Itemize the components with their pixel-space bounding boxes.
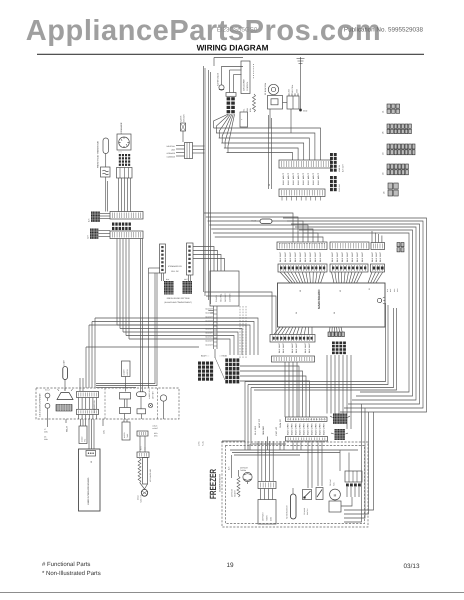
svg-text:SWITCH: SWITCH [306, 508, 309, 515]
wires into dispenser board [80, 378, 83, 391]
dispenser switches [45, 389, 50, 420]
svg-text:BLK ORN: BLK ORN [287, 423, 290, 435]
svg-text:COMMON: COMMON [229, 293, 232, 302]
svg-text:USER INTERFACE BOARD: USER INTERFACE BOARD [87, 477, 90, 505]
svg-text:GRN: GRN [103, 429, 106, 434]
wires board outputs left [274, 327, 312, 335]
svg-text:BLK WHT: BLK WHT [304, 342, 307, 353]
legend connector J5 [382, 124, 412, 134]
svg-text:BLK/WHT: BLK/WHT [205, 336, 213, 339]
svg-text:FRESH FOOD SECTION: FRESH FOOD SECTION [167, 297, 190, 300]
svg-text:BLK WHT: BLK WHT [304, 251, 307, 262]
damper wire labels [243, 64, 254, 112]
wires icemaker fill [162, 247, 225, 282]
svg-text:BLK: BLK [88, 218, 91, 222]
svg-text:WHT: WHT [87, 234, 90, 239]
svg-text:FAN: FAN [333, 482, 336, 486]
svg-text:LINE: LINE [288, 88, 291, 93]
thermal fuse F1 [251, 219, 272, 223]
wires into freezer [258, 437, 322, 489]
svg-text:BLK/WHT: BLK/WHT [205, 344, 213, 347]
defrost connector [258, 482, 276, 500]
wires middle distribution harness [86, 239, 258, 389]
main control board U1 [278, 283, 386, 327]
ground stub wire [103, 419, 106, 434]
svg-text:YEL: YEL [243, 109, 246, 112]
wires icemaker to harness [119, 178, 131, 212]
fresh food harness connector P2 [110, 231, 143, 239]
svg-text:— HEAD: — HEAD [219, 355, 228, 358]
svg-text:PLUG: PLUG [202, 441, 205, 446]
wires solenoid feed [214, 58, 243, 93]
machine compartment plug A [330, 414, 350, 425]
svg-text:FRESH FOOD THERMISTOR: FRESH FOOD THERMISTOR [97, 141, 100, 168]
icemaker connector [117, 168, 133, 179]
header: model number [217, 27, 258, 34]
svg-text:FILL CK: FILL CK [171, 270, 179, 273]
svg-text:BLK WHT: BLK WHT [336, 251, 339, 262]
board header J2 [278, 264, 327, 272]
dispenser board connectors [77, 392, 99, 420]
svg-text:NEUTRAL: NEUTRAL [167, 145, 175, 148]
svg-text:BLK: BLK [228, 466, 231, 470]
water inlet solenoid [217, 72, 225, 90]
wires board outputs mid [329, 327, 343, 336]
svg-text:FFC: FFC [84, 438, 87, 442]
svg-text:BLK WHT: BLK WHT [308, 342, 311, 353]
dispenser light L1 [63, 359, 68, 391]
defrost resistor element [253, 94, 256, 112]
svg-text:ICE CHUTE HTR: ICE CHUTE HTR [149, 468, 152, 482]
fresh food evap fan motor M2 [264, 82, 283, 109]
svg-text:J6: J6 [383, 191, 386, 194]
freezer evap fan motor M1 [329, 478, 341, 512]
svg-text:MTR HTR: MTR HTR [152, 391, 155, 399]
svg-text:LINE IN: LINE IN [338, 165, 341, 172]
evaporator harness connector [226, 93, 236, 114]
fill line plugs [164, 278, 192, 304]
svg-text:WIRING DIAGRAM: WIRING DIAGRAM [197, 44, 269, 53]
svg-text:* Non-Illustrated Parts: * Non-Illustrated Parts [42, 570, 101, 577]
wire color labels [268, 172, 320, 186]
svg-text:CONTROL: CONTROL [246, 82, 249, 91]
svg-text:03/13: 03/13 [404, 563, 420, 570]
power inlet block [287, 85, 299, 109]
freezer light switch S4 [316, 488, 323, 500]
svg-text:BLK ORN: BLK ORN [311, 423, 314, 435]
ice and water dispenser enclosure [36, 388, 179, 419]
wires fan motor [270, 103, 287, 129]
svg-text:WATER: WATER [123, 432, 126, 438]
wires harness staircase upper [214, 128, 321, 160]
icemaker fill connector L [149, 244, 166, 388]
svg-text:BLK ORN: BLK ORN [303, 423, 306, 435]
svg-text:BLK WHT: BLK WHT [312, 172, 315, 185]
svg-text:MAIN BOARD: MAIN BOARD [317, 289, 321, 309]
dispenser lamp and paddle [56, 388, 73, 411]
svg-text:BLK WHT: BLK WHT [314, 251, 317, 262]
svg-text:BLK WHT: BLK WHT [279, 251, 282, 262]
svg-text:WATER: WATER [180, 115, 183, 122]
svg-text:SENSOR: SENSOR [183, 114, 186, 122]
wires dispenser feed pair [96, 239, 157, 392]
footer page number [226, 562, 234, 569]
svg-text:DISPENSER BD: DISPENSER BD [93, 400, 96, 413]
svg-text:DEFROST: DEFROST [262, 512, 265, 521]
connector CF1 [101, 167, 111, 177]
wires connector fanout [214, 114, 235, 153]
svg-text:RED: RED [154, 432, 158, 435]
freezer plug labels [198, 441, 205, 446]
svg-text:AppliancePartsPros.com: AppliancePartsPros.com [26, 15, 381, 47]
defrost heater HR1 [231, 470, 241, 497]
svg-text:GRN: GRN [396, 289, 399, 292]
svg-text:ORN: ORN [246, 107, 249, 112]
power connector block CN-L [330, 153, 345, 172]
svg-text:DEFROST: DEFROST [231, 489, 234, 497]
svg-text:BLK WHT: BLK WHT [278, 342, 281, 353]
wire [105, 154, 107, 168]
svg-text:COMPARTMENT: COMPARTMENT [219, 473, 222, 492]
svg-text:BRN: BRN [249, 108, 252, 112]
svg-text:FZ THERMISTOR: FZ THERMISTOR [286, 505, 289, 519]
svg-text:GRN: GRN [44, 438, 49, 441]
svg-text:BLK/WHT: BLK/WHT [205, 340, 213, 343]
door harness plug A [88, 212, 101, 223]
water tube connector chain [122, 419, 158, 458]
svg-text:FREEZER: FREEZER [208, 469, 218, 499]
wires freezer internal bus [230, 450, 358, 455]
svg-text:LIGHT: LIGHT [63, 359, 66, 365]
svg-text:ORN DEF: ORN DEF [262, 425, 265, 435]
svg-text:RUN CP: RUN CP [279, 418, 282, 428]
svg-text:LINE: LINE [171, 149, 176, 152]
wires plug links [99, 214, 111, 237]
svg-text:BLK WHT: BLK WHT [356, 251, 359, 262]
header rule [37, 53, 424, 55]
title WIRING DIAGRAM [197, 44, 269, 53]
pin wire labels row [279, 251, 382, 262]
svg-text:BLK WHT: BLK WHT [346, 251, 349, 262]
svg-text:BLK WHT: BLK WHT [302, 172, 305, 185]
svg-text:BODY —: BODY — [201, 355, 209, 358]
harness pins [112, 223, 131, 231]
chassis ground stud [297, 57, 308, 113]
svg-text:BLK ORN: BLK ORN [299, 423, 302, 435]
svg-text:BLK: BLK [386, 289, 389, 292]
svg-text:J2: J2 [299, 289, 302, 292]
svg-text:COMMON: COMMON [167, 156, 176, 159]
wires main to freezer harness [240, 362, 310, 417]
svg-text:J2: J2 [90, 460, 93, 463]
wire [106, 177, 108, 212]
svg-text:# Functional Parts: # Functional Parts [42, 561, 90, 568]
svg-text:FF EVAP FAN: FF EVAP FAN [264, 82, 267, 95]
svg-text:J5: J5 [382, 131, 385, 134]
svg-text:BLK WHT: BLK WHT [361, 251, 364, 262]
wire power inlet [290, 109, 292, 133]
icemaker motor module [117, 134, 131, 154]
svg-text:◄ WHT: ◄ WHT [152, 427, 158, 430]
svg-text:THERM: THERM [240, 469, 247, 472]
output wire labels [278, 342, 311, 353]
air damper control U3 [241, 61, 250, 94]
terminal block TB1 [205, 271, 246, 358]
svg-text:BLK WHT: BLK WHT [351, 251, 354, 262]
svg-text:▪ ▪ ▪ ▪: ▪ ▪ ▪ ▪ [118, 152, 122, 154]
svg-text:EI23CS55GS0: EI23CS55GS0 [217, 27, 258, 34]
svg-text:AUGER: AUGER [123, 369, 126, 376]
dispenser relay wires [44, 419, 69, 441]
svg-text:BLK ORN: BLK ORN [319, 423, 322, 435]
wires to J11 [269, 115, 272, 189]
wires compressor run loop [245, 303, 397, 450]
body and head harness blocks [198, 355, 239, 384]
svg-text:ICEMAKER CK: ICEMAKER CK [168, 265, 182, 268]
board side labels [386, 288, 399, 292]
wire BLK freezer [228, 455, 232, 478]
svg-text:4-PIN: 4-PIN [198, 441, 201, 446]
svg-text:NEUTRAL: NEUTRAL [220, 294, 223, 302]
svg-text:AIR DAMPER: AIR DAMPER [243, 79, 246, 91]
svg-text:BLK/WHT: BLK/WHT [205, 328, 213, 331]
svg-text:SPEAKER: SPEAKER [167, 152, 176, 155]
icemaker label [120, 122, 123, 133]
svg-text:WATER VALVE: WATER VALVE [217, 72, 220, 86]
svg-text:BLK ORN: BLK ORN [295, 423, 298, 435]
legend connector J6 [383, 183, 399, 196]
board output connector J6 [328, 332, 346, 354]
svg-text:ICEMAKER: ICEMAKER [120, 122, 123, 133]
wires to machine compartment plugs [327, 355, 351, 429]
svg-text:BLK WHT: BLK WHT [297, 172, 300, 185]
main supply bus wires [204, 66, 211, 304]
svg-text:HEATER: HEATER [234, 490, 237, 497]
svg-text:TUBE: TUBE [126, 434, 129, 438]
freezer door switch S3 [303, 490, 312, 516]
svg-text:Publication No. 5995529038: Publication No. 5995529038 [344, 27, 424, 34]
board connector J1 plug [371, 243, 385, 250]
dispenser auger motor and solenoids [120, 361, 167, 419]
svg-text:GROUND: GROUND [338, 183, 341, 192]
board header J3 [330, 264, 368, 272]
svg-text:BLK WHT: BLK WHT [342, 163, 345, 172]
svg-text:BLK WHT: BLK WHT [284, 251, 287, 262]
svg-text:WHT RT: WHT RT [258, 418, 261, 428]
svg-text:BLK ORN: BLK ORN [307, 423, 310, 435]
connector J7 plug [397, 243, 404, 252]
user interface board U2 [79, 449, 101, 511]
freezer feed labels [254, 418, 282, 436]
header: watermark AppliancePartsPros.com [26, 15, 381, 47]
svg-text:BLK ORN: BLK ORN [291, 423, 294, 435]
board connector J3 plug [330, 242, 369, 250]
svg-text:CMP HT: CMP HT [275, 426, 278, 436]
footer date [404, 563, 420, 570]
svg-text:BLK WHT: BLK WHT [282, 342, 285, 353]
svg-text:J3: J3 [382, 152, 385, 155]
ribbon cable to UI [79, 419, 94, 449]
svg-text:WHT: WHT [389, 289, 392, 292]
svg-text:▪▪: ▪▪ [241, 119, 243, 121]
legend connector J4 [382, 164, 409, 175]
svg-text:BLK/WHT: BLK/WHT [205, 308, 213, 311]
icemaker fill connector R [187, 243, 194, 275]
svg-text:BLK/WHT: BLK/WHT [205, 320, 213, 323]
svg-text:GRN: GRN [296, 88, 299, 93]
svg-text:J3: J3 [339, 289, 342, 292]
legend connector J3 [382, 144, 416, 155]
defrost thermostat S1 [240, 467, 252, 485]
freezer harness labels [287, 423, 326, 435]
svg-text:J1: J1 [368, 287, 371, 290]
svg-text:BLK WHT: BLK WHT [282, 172, 285, 185]
alarm buzzer BZ1 [377, 297, 385, 304]
svg-text:BLK WHT: BLK WHT [379, 251, 382, 262]
svg-text:GRN: GRN [44, 431, 49, 434]
svg-text:AUGER SOL: AUGER SOL [148, 389, 151, 399]
freezer thermistor RT1 [286, 488, 297, 519]
svg-text:BLK WHT: BLK WHT [287, 172, 290, 185]
svg-text:RELAY: RELAY [66, 425, 69, 432]
freezer label [208, 469, 222, 499]
legend connector J1 [382, 104, 400, 113]
svg-text:J6: J6 [333, 311, 336, 314]
svg-text:BLK WHT: BLK WHT [307, 172, 310, 185]
svg-text:CABLE: CABLE [81, 436, 84, 442]
defrost timer assembly [258, 500, 276, 525]
door harness plug B [87, 229, 99, 240]
svg-text:TIMER: TIMER [266, 515, 269, 521]
svg-text:BLK WHT: BLK WHT [375, 251, 378, 262]
wires freezer door feed [222, 441, 286, 450]
svg-text:BLK: BLK [166, 278, 170, 281]
svg-text:M: M [334, 493, 337, 497]
icemaker pin grid [119, 154, 130, 166]
svg-text:J4: J4 [295, 311, 298, 314]
fresh food harness connector P1 [110, 212, 143, 220]
svg-text:BLK WHT: BLK WHT [341, 251, 344, 262]
svg-text:NEUTRAL: NEUTRAL [291, 85, 294, 93]
footer functional parts note [42, 561, 101, 577]
main harness connector J10 [279, 160, 331, 168]
fresh food thermistor RT2 [97, 138, 109, 168]
freezer harness connector P20 [286, 417, 328, 441]
wires bus to board [204, 292, 276, 335]
svg-text:BLK ORN: BLK ORN [315, 423, 318, 435]
svg-text:ICE & WATER DISPENSER: ICE & WATER DISPENSER [39, 393, 42, 417]
svg-text:FZ DOOR: FZ DOOR [303, 507, 306, 515]
svg-text:POWER: POWER [215, 295, 218, 302]
svg-text:RED: RED [393, 288, 396, 292]
svg-text:BLK SIG: BLK SIG [254, 425, 257, 435]
svg-text:J4: J4 [382, 172, 385, 175]
line connector CN2 [167, 143, 205, 159]
svg-text:SW LT: SW LT [45, 389, 50, 392]
svg-text:BLK WHT: BLK WHT [317, 172, 320, 185]
footer rule [0, 592, 464, 594]
svg-text:BLK WHT: BLK WHT [292, 172, 295, 185]
board output connector J4 [270, 335, 315, 343]
svg-text:MOTOR: MOTOR [126, 368, 129, 375]
icemaker fill labels [168, 265, 182, 273]
damper connector [240, 112, 248, 127]
board connector J2 plug [277, 242, 327, 250]
svg-text:BLK WHT: BLK WHT [371, 251, 374, 262]
dispenser harness connector [272, 356, 315, 362]
svg-text:(IN MACHINE COMPARTMENT): (IN MACHINE COMPARTMENT) [164, 301, 192, 304]
header: publication number [344, 27, 424, 34]
svg-text:FUSE —: FUSE — [251, 220, 258, 223]
svg-text:DRAIN: DRAIN [137, 494, 140, 500]
svg-text:BLK WHT: BLK WHT [299, 251, 302, 262]
wires to right connectors [372, 231, 382, 243]
svg-text:BLK WHT: BLK WHT [331, 251, 334, 262]
compressor relay connector [345, 471, 362, 487]
svg-text:WHT: WHT [184, 278, 188, 281]
svg-text:BLK WHT: BLK WHT [294, 251, 297, 262]
ice chute heater HR2 [137, 458, 153, 504]
wires right side loop harness [283, 218, 427, 412]
wires board fan-in [280, 272, 383, 283]
svg-text:19: 19 [226, 562, 234, 569]
svg-text:DEFROST: DEFROST [224, 293, 227, 302]
power connector block CN-G [330, 176, 341, 192]
svg-text:BLK WHT: BLK WHT [319, 251, 322, 262]
svg-text:BLK WHT: BLK WHT [309, 251, 312, 262]
wires freezer right [335, 450, 359, 506]
freezer compartment enclosure [222, 442, 368, 527]
svg-text:BLK ORN: BLK ORN [323, 423, 326, 435]
wires control harness run [204, 213, 323, 242]
machine compartment plug B [331, 429, 348, 440]
main harness connector J11 [279, 189, 325, 201]
svg-text:FZ EVAP: FZ EVAP [329, 478, 332, 486]
svg-text:BLK WHT: BLK WHT [289, 251, 292, 262]
svg-text:GND: GND [303, 110, 308, 113]
svg-text:BLK WHT: BLK WHT [295, 342, 298, 353]
svg-text:TUBE HTR: TUBE HTR [140, 494, 143, 503]
svg-text:J1: J1 [382, 110, 385, 113]
wires condenser loop [344, 404, 374, 522]
svg-text:BLK WHT: BLK WHT [291, 342, 294, 353]
board header J1 [371, 264, 385, 272]
water sensor SW5 [180, 114, 186, 142]
svg-text:ASM: ASM [270, 517, 273, 521]
